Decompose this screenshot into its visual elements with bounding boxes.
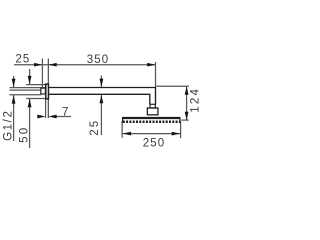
svg-text:G1/2: G1/2 <box>2 110 14 141</box>
svg-text:350: 350 <box>87 54 110 66</box>
svg-text:50: 50 <box>18 126 30 143</box>
svg-text:250: 250 <box>143 138 166 150</box>
svg-text:124: 124 <box>190 87 201 113</box>
svg-text:7: 7 <box>62 106 70 118</box>
svg-text:25: 25 <box>89 119 101 136</box>
svg-text:25: 25 <box>15 53 30 65</box>
